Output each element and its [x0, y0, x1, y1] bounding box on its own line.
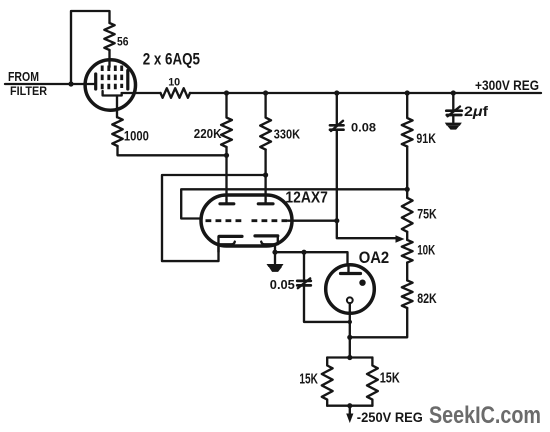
node 220K/1000 junction — [224, 153, 229, 158]
wire cathode junction to OA2 top — [275, 252, 348, 265]
wire 10K to 82K — [406, 263, 408, 281]
svg-text:330K: 330K — [274, 128, 300, 142]
svg-text:2 x 6AQ5: 2 x 6AQ5 — [143, 51, 200, 69]
node 15K bottom — [347, 403, 352, 408]
wire input from filter — [5, 83, 96, 85]
svg-text:10K: 10K — [417, 241, 435, 257]
resistor 75K — [402, 198, 413, 232]
resistor 1000 — [112, 117, 122, 146]
svg-text:0.05: 0.05 — [270, 277, 295, 292]
wire A right-plate node to left cathode — [162, 175, 266, 261]
tube V3 gas dot — [359, 280, 365, 286]
tube V2 left cathode hook — [219, 236, 235, 244]
node input junction — [68, 81, 73, 86]
capacitor 2uf — [452, 93, 454, 111]
node right cathode junction — [272, 250, 277, 255]
potentiometer wiper arrow — [396, 235, 405, 243]
wire 220K to left plate — [225, 147, 227, 200]
tube V1 grid dash column 4 — [120, 66, 123, 89]
wire 56 to tube top — [108, 50, 110, 67]
tube V3 anode lead — [347, 265, 349, 273]
resistor 91K — [402, 93, 413, 147]
wire 330K to right plate — [264, 150, 266, 200]
tube V1 cathode lead down — [116, 96, 118, 118]
svg-text:82K: 82K — [417, 290, 437, 306]
node bus 0.08 — [334, 90, 339, 95]
svg-text:10: 10 — [168, 76, 180, 88]
output arrow -250V — [349, 406, 351, 415]
svg-text:OA2: OA2 — [359, 249, 390, 267]
tube V1 grid dash column 3 — [114, 66, 117, 92]
wire 75K to 10K — [406, 232, 408, 240]
svg-text:2μf: 2μf — [464, 104, 489, 119]
tube V2 left cathode — [219, 235, 242, 238]
node 15K top — [347, 355, 352, 360]
tube V2 left plate — [220, 202, 234, 205]
resistor 10K — [402, 240, 413, 263]
tube V1 cathode — [103, 91, 122, 96]
node 0.05 junction — [301, 250, 306, 255]
tube V2 right cathode — [255, 234, 278, 237]
wire tube output to resistor 10 — [122, 92, 161, 94]
resistor 10 — [161, 88, 191, 98]
wire top feedback loop — [71, 11, 110, 84]
resistor 330K — [260, 93, 271, 150]
tube V2 left grid dashes — [206, 219, 242, 222]
node OA2/0.05 return — [348, 320, 352, 324]
tube V1 6AQ5 envelope — [85, 60, 135, 110]
tube V2 right cathode lead — [274, 244, 276, 252]
svg-text:SeekIC.com: SeekIC.com — [429, 402, 541, 429]
tube V1 grid terminal bar — [94, 74, 97, 89]
wire 15K top bar — [327, 356, 372, 358]
wire 91K to 75K — [406, 147, 408, 198]
tube V1 plate bar — [126, 71, 129, 90]
ground symbol 12AX7 cathode — [274, 252, 276, 263]
tube V3 cathode circle — [347, 297, 353, 303]
node bus 2uf — [451, 90, 456, 95]
svg-text:91K: 91K — [416, 130, 436, 146]
tube V2 left cathode lead — [217, 244, 219, 252]
ground symbol 2uf — [445, 123, 462, 126]
capacitor 0.05 — [303, 252, 305, 280]
svg-text:56: 56 — [117, 35, 129, 49]
wire 82K return to OA2 cathode — [350, 308, 407, 337]
svg-text:15K: 15K — [380, 371, 400, 387]
wire +300V bus — [190, 92, 541, 94]
tube V2 12AX7 envelope — [201, 195, 292, 246]
svg-text:12AX7: 12AX7 — [285, 190, 328, 207]
wire B left grid to divider junction — [181, 189, 407, 218]
tube V2 left plate lead — [225, 200, 227, 204]
node divider junction — [405, 187, 410, 192]
resistor 82K — [402, 280, 413, 308]
tube V3 anode bar — [341, 272, 361, 275]
tube V3 cathode lead — [349, 303, 351, 357]
node bus 330K — [263, 90, 268, 95]
svg-text:75K: 75K — [417, 206, 437, 222]
svg-text:FILTER: FILTER — [10, 84, 47, 98]
tube V2 right plate — [258, 202, 273, 205]
svg-text:0.08: 0.08 — [351, 122, 377, 135]
tube V2 right cathode hook — [261, 236, 278, 244]
svg-text:FROM: FROM — [8, 69, 39, 84]
node bus 220K — [224, 90, 229, 95]
tube V2 right grid dashes — [252, 219, 289, 222]
tube V3 OA2 envelope — [326, 265, 375, 314]
svg-text:-250V REG: -250V REG — [357, 410, 423, 425]
wire 1000 to 220K bottom — [118, 146, 227, 155]
resistor 56 — [104, 23, 114, 50]
node feedback junction on 330K lead — [263, 172, 268, 177]
tube V1 grid dash column 2 — [107, 66, 110, 92]
tube V2 right plate lead — [264, 200, 266, 204]
wire 15K bottom bar — [327, 405, 372, 407]
svg-text:220K: 220K — [194, 127, 222, 141]
node grid/0.08 junction — [334, 218, 339, 223]
tube V1 grid dash column 1 — [101, 66, 104, 92]
resistor 15K right — [367, 358, 378, 406]
node bus 91K — [405, 90, 410, 95]
svg-text:15K: 15K — [299, 372, 318, 388]
resistor 220K — [221, 93, 232, 147]
capacitor 0.08 — [336, 93, 338, 125]
resistor 15K left — [322, 358, 333, 406]
tube V2 right grid exit wire — [288, 220, 337, 222]
svg-text:1000: 1000 — [124, 129, 149, 144]
svg-text:+300V REG: +300V REG — [475, 78, 539, 93]
node OA2/82K return — [347, 335, 352, 340]
